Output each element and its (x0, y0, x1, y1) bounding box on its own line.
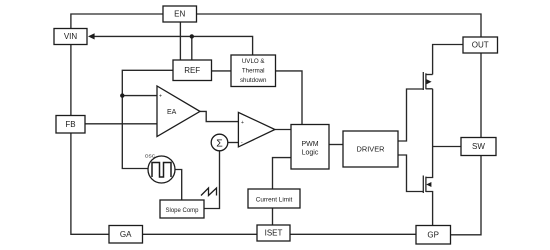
comparator U2 (238, 112, 275, 146)
wire SW bottom to GP right (451, 156, 482, 235)
wire UVLO to PWM Logic top (276, 71, 303, 125)
box EN (163, 6, 197, 22)
oscillator OSC (145, 154, 175, 183)
wire comparator output to PWM Logic (275, 129, 291, 131)
svg-text:+: + (159, 94, 162, 100)
transistor Q2 low-side MOSFET (423, 147, 432, 226)
box ISET (257, 225, 290, 241)
svg-text:Slope Comp: Slope Comp (165, 208, 199, 214)
svg-text:FB: FB (65, 120, 75, 129)
box PWM Logic (291, 125, 329, 170)
wire EN to OUT top (197, 14, 482, 37)
wire REF to EA noninverting input (122, 70, 173, 168)
junction node at VIN feed (190, 34, 194, 38)
junction node at EA input (120, 93, 124, 97)
svg-text:OSC: OSC (145, 154, 156, 160)
wire Current Limit to ISET (272, 208, 274, 225)
summing node (211, 134, 228, 151)
svg-text:Σ: Σ (216, 137, 223, 149)
wire OUT left to high-side drain (433, 45, 463, 75)
wire OUT bottom to SW top (480, 53, 482, 138)
svg-text:REF: REF (184, 66, 200, 75)
wire GA to ISET (143, 233, 258, 235)
svg-text:shutdown: shutdown (240, 77, 267, 84)
box UVLO and Thermal shutdown (231, 55, 276, 87)
wire FB to EA inverting input (85, 123, 157, 125)
wire VIN rail down to GA (71, 45, 109, 235)
box GP (416, 226, 451, 245)
wire PWM Logic to DRIVER (329, 144, 343, 146)
box Current Limit (248, 189, 300, 208)
svg-text:UVLO &: UVLO & (242, 58, 266, 65)
box REF (173, 60, 212, 81)
svg-text:EA: EA (167, 109, 177, 116)
op-amp EA (157, 86, 200, 137)
wire Current Limit to PWM Logic (273, 158, 292, 189)
svg-text:ISET: ISET (265, 229, 283, 238)
wire node to EA input (122, 95, 157, 97)
wire summer to comparator (228, 142, 239, 144)
wire Slope Comp to summer (204, 151, 220, 209)
svg-text:Thermal: Thermal (242, 67, 265, 74)
svg-text:DRIVER: DRIVER (357, 145, 385, 154)
box DRIVER (343, 131, 398, 167)
wire switch node to SW (433, 146, 461, 148)
svg-text:+: + (241, 120, 244, 126)
svg-text:EN: EN (174, 10, 185, 19)
wire DRIVER to high-side gate (398, 89, 424, 141)
transistor Q1 high-side MOSFET (423, 72, 432, 147)
wire VIN feed horizontal (91, 36, 253, 55)
wire ISET to GP (290, 233, 416, 235)
box OUT (463, 37, 498, 53)
svg-text:PWM: PWM (301, 141, 318, 148)
box Slope Comp (160, 200, 204, 218)
arrowhead into VIN (88, 33, 95, 39)
wire REF to UVLO (212, 70, 232, 72)
svg-text:Logic: Logic (302, 149, 319, 156)
wire VIN top to EN (71, 14, 163, 29)
svg-text:Current Limit: Current Limit (256, 197, 293, 204)
svg-text:VIN: VIN (64, 32, 78, 41)
svg-text:GP: GP (427, 231, 439, 240)
wire EA output to comparator (200, 111, 238, 121)
wire junction to REF top (191, 36, 193, 60)
box FB (56, 116, 85, 134)
box SW (461, 138, 496, 156)
sawtooth slope symbol (201, 188, 217, 196)
svg-text:OUT: OUT (472, 41, 489, 50)
wire EN bottom to REF top (179, 22, 181, 60)
box VIN (54, 29, 87, 45)
wire OSC to Slope Comp (175, 170, 182, 201)
box GA (109, 226, 143, 244)
wire DRIVER to low-side gate (398, 155, 424, 192)
svg-text:SW: SW (472, 142, 485, 151)
svg-text:GA: GA (120, 230, 132, 239)
